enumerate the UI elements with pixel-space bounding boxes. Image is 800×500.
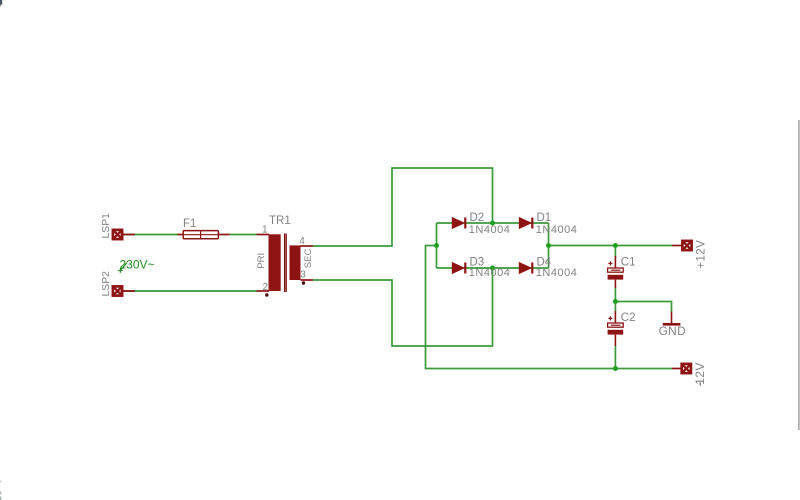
diode D3	[452, 263, 466, 274]
pad LSP1	[113, 230, 135, 239]
svg-text:D1: D1	[537, 212, 552, 224]
TR1 pin 3 polarity dot	[302, 281, 305, 284]
junction dot mid rail	[613, 299, 618, 304]
transformer TR1 primary winding	[257, 234, 281, 291]
svg-text:2: 2	[262, 282, 268, 293]
diode D4	[519, 263, 533, 274]
fuse F1	[178, 231, 230, 239]
svg-text:D2: D2	[470, 212, 485, 224]
capacitor C2	[608, 311, 624, 346]
svg-text:GND: GND	[659, 324, 686, 338]
svg-text:+12V: +12V	[695, 240, 707, 269]
wire bridge right vertical	[548, 223, 550, 268]
pad -12V	[672, 364, 691, 373]
junction dot C1 top	[613, 243, 618, 248]
wire C1 top branch	[614, 246, 616, 258]
wire fuse F1 to TR1 pin 1	[229, 234, 257, 236]
svg-text:TR1: TR1	[269, 215, 291, 227]
transformer TR1 core	[285, 234, 287, 293]
TR1 pin 2 polarity dot	[265, 293, 268, 296]
wire top diode row D2-D1	[437, 222, 549, 224]
wire bottom diode row D3-D4	[437, 267, 549, 269]
svg-text:12V: 12V	[693, 362, 707, 385]
svg-text:C1: C1	[621, 256, 636, 268]
svg-text:3: 3	[300, 269, 306, 280]
pad LSP2	[113, 286, 135, 295]
junction dot bridge bottom	[490, 266, 495, 271]
junction dot bridge top	[490, 221, 495, 226]
svg-text:F1: F1	[183, 218, 196, 230]
wire TR1 pin 3 to bridge bottom (AC2 net)	[313, 268, 493, 346]
junction dot C2 bottom	[613, 366, 618, 371]
ground symbol GND	[663, 312, 681, 325]
wire TR1 pin 4 to bridge top (AC1 net)	[313, 168, 493, 246]
svg-text:4: 4	[299, 236, 305, 247]
svg-text:1N4004: 1N4004	[536, 267, 578, 279]
screenshot edge artifacts bottom-left	[0, 481, 1, 500]
svg-text:SEC: SEC	[303, 249, 314, 269]
diode D2	[452, 218, 466, 229]
screenshot scrollbar line right edge	[798, 120, 799, 430]
diode D1	[519, 218, 533, 229]
svg-text:C2: C2	[621, 312, 636, 324]
svg-text:1N4004: 1N4004	[469, 267, 511, 279]
wire C1 bottom to mid junction	[614, 287, 616, 302]
junction dot bridge left	[434, 243, 439, 248]
wire bridge left vertical	[436, 223, 438, 268]
wire minus net: bridge left to -12V rail	[426, 246, 673, 369]
svg-text:1N4004: 1N4004	[536, 224, 578, 236]
net label 230V~	[118, 258, 155, 274]
wire plus net: bridge right to +12V rail	[549, 245, 673, 247]
svg-text:LSP2: LSP2	[101, 271, 112, 297]
junction dot bridge right	[546, 243, 551, 248]
label -12V	[693, 362, 707, 385]
svg-text:1N4004: 1N4004	[469, 224, 511, 236]
wire C2 bottom to -12V rail	[614, 345, 616, 369]
wire C2 top branch	[614, 302, 616, 313]
svg-text:1: 1	[262, 225, 268, 236]
svg-text:PRI: PRI	[256, 253, 267, 269]
transformer TR1 secondary winding	[290, 245, 313, 280]
svg-text:LSP1: LSP1	[101, 213, 112, 239]
pad +12V	[672, 241, 692, 250]
screenshot corner artifact top-left	[0, 0, 2, 7]
capacitor C1	[608, 256, 624, 288]
wire LSP1 to fuse F1	[121, 234, 178, 236]
wire LSP2 to TR1 pin 2	[121, 290, 257, 292]
wire mid junction to GND	[615, 302, 671, 313]
